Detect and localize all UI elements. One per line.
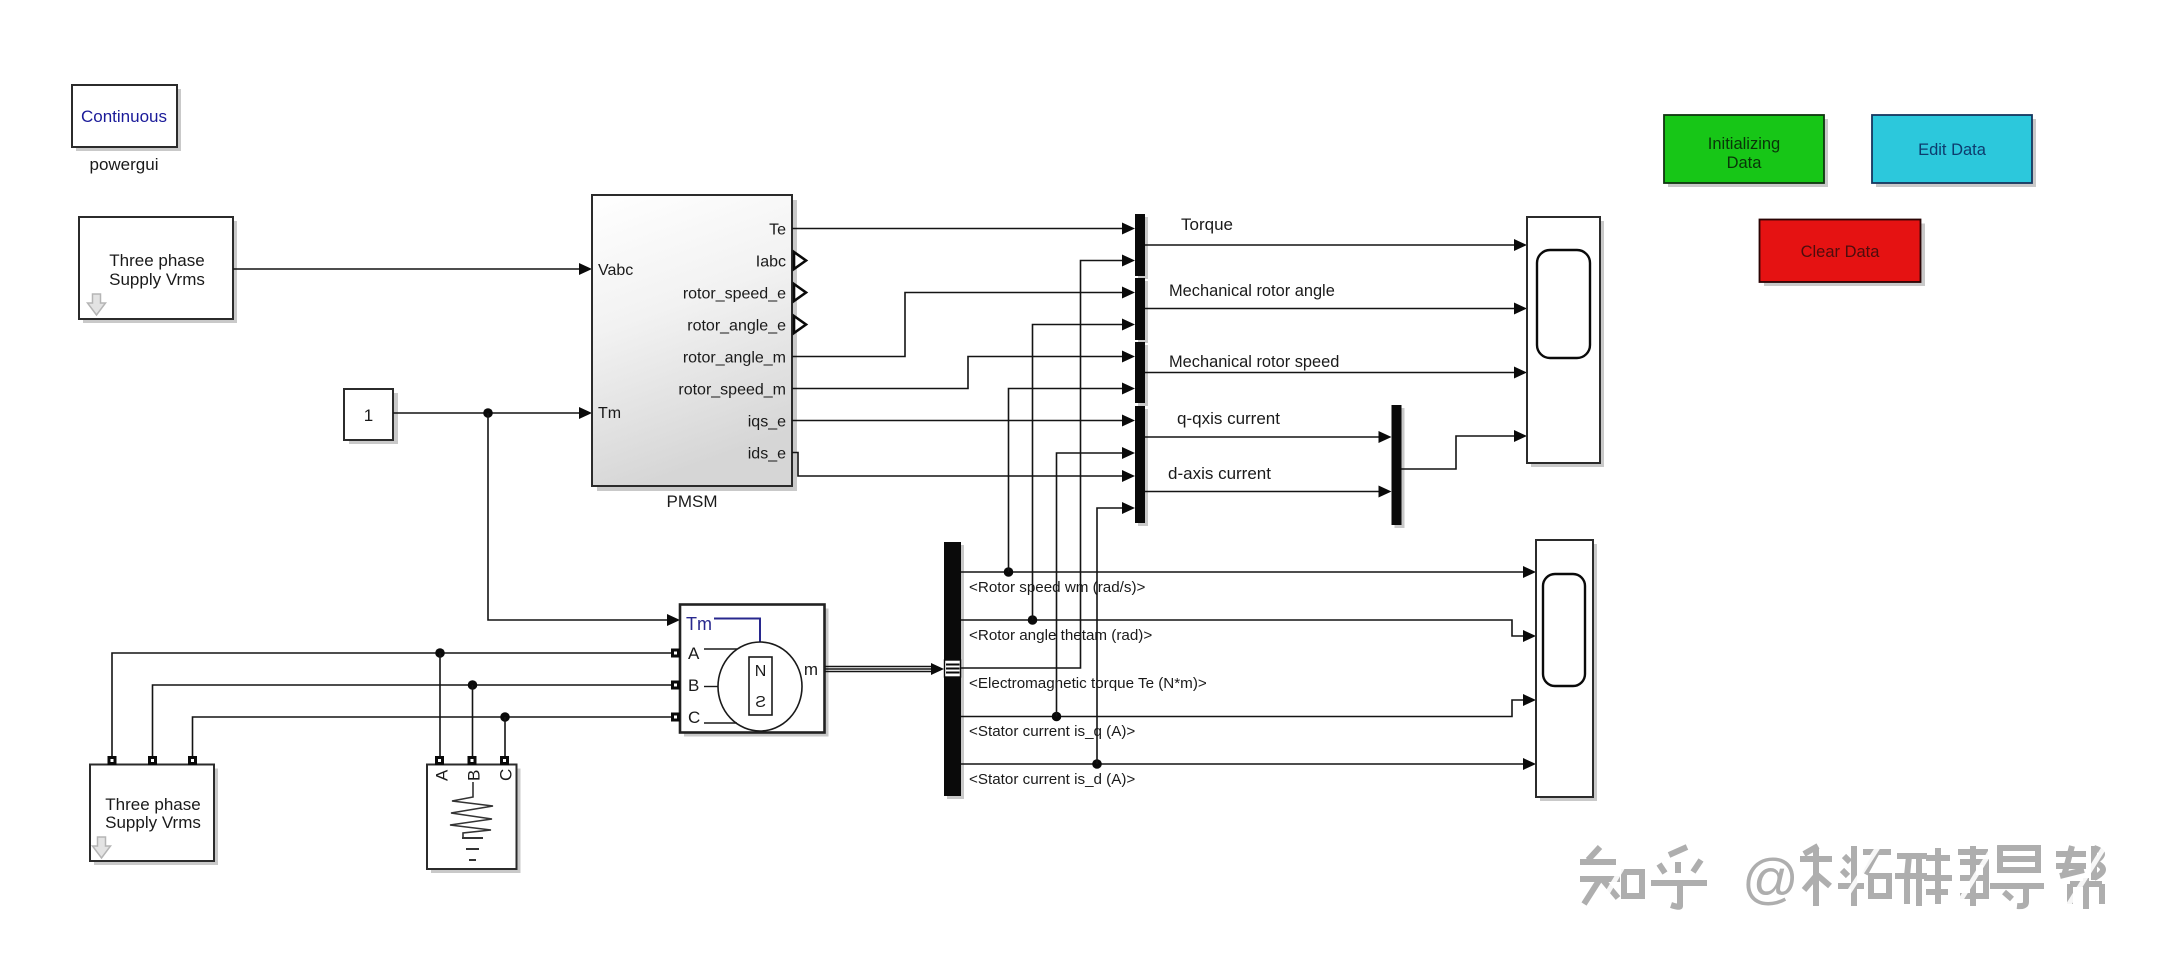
svg-text:S: S: [755, 694, 766, 711]
svg-text:Continuous: Continuous: [81, 107, 167, 126]
node junction is_d: [1092, 759, 1102, 769]
scope Scope1: [1527, 217, 1604, 467]
svg-text:Data: Data: [1727, 154, 1763, 172]
motor port pad C: [671, 713, 680, 722]
wire mux5 out to scope input4: [1402, 436, 1517, 469]
svg-text:Supply Vrms: Supply Vrms: [109, 270, 205, 289]
wire mux3 out to scope: [1145, 372, 1516, 374]
branch port pad B: [468, 756, 477, 765]
wire junction down to motor Tm: [488, 413, 669, 620]
node junction thetam: [1028, 615, 1038, 625]
svg-text:<Rotor speed wm (rad/s)>: <Rotor speed wm (rad/s)>: [969, 579, 1146, 596]
node junction is_q: [1052, 712, 1062, 722]
svg-text:<Stator current is_q (A)>: <Stator current is_q (A)>: [969, 723, 1135, 740]
svg-text:Initializing: Initializing: [1708, 135, 1780, 153]
mux M5: [1395, 408, 1405, 528]
node junction B: [468, 680, 478, 690]
svg-text:rotor_angle_m: rotor_angle_m: [683, 350, 786, 367]
svg-text:Three phase: Three phase: [105, 795, 200, 814]
wire phase C: [193, 717, 672, 756]
svg-text:B: B: [465, 770, 484, 781]
svg-text:m: m: [804, 660, 818, 679]
branch port pad C: [500, 756, 509, 765]
wire ids_e to mux4: [792, 453, 1124, 477]
wire supply to Vabc: [233, 268, 581, 270]
PMSM machine block (motor): [680, 605, 829, 737]
unconnected output port Iabc: [794, 252, 806, 269]
svg-text:Te: Te: [769, 222, 786, 239]
bus selector input icon: [945, 660, 961, 677]
svg-text:Supply Vrms: Supply Vrms: [105, 813, 201, 832]
motor port pad B: [671, 681, 680, 690]
svg-text:Vabc: Vabc: [598, 262, 633, 279]
svg-text:ids_e: ids_e: [748, 446, 786, 463]
wire thetam feeder up to mux2: [1033, 325, 1125, 621]
svg-text:Clear Data: Clear Data: [1801, 243, 1881, 261]
svg-text:N: N: [755, 663, 767, 680]
node junction wm: [1004, 567, 1014, 577]
wire Rotor angle thetam to scope2: [961, 620, 1525, 636]
unconnected output port rotor_speed_e: [794, 284, 806, 301]
three-phase RLC branch block: [427, 765, 521, 874]
supply port pad 3: [188, 756, 197, 765]
node junction C: [500, 712, 510, 722]
constant 1 block: [344, 389, 398, 444]
wire rotor_angle_m to mux2: [792, 293, 1124, 357]
svg-text:Tm: Tm: [598, 405, 621, 422]
svg-text:Three phase: Three phase: [109, 251, 204, 270]
bus wire from motor m: [825, 666, 934, 668]
Three phase Supply Vrms (bottom): [90, 765, 218, 866]
svg-text:C: C: [688, 708, 700, 727]
node junction under constant: [483, 408, 493, 418]
svg-text:<Rotor angle thetam (rad)>: <Rotor angle thetam (rad)>: [969, 627, 1152, 644]
svg-text:Tm: Tm: [686, 614, 712, 634]
wire mux4 out1 to mux5: [1145, 436, 1381, 438]
wire C down to branch: [504, 717, 506, 756]
wire mux2 out to scope: [1145, 308, 1516, 310]
wire is_q feeder up to mux4: [1057, 453, 1125, 717]
wire is_d feeder up to mux4: [1097, 508, 1124, 764]
svg-text:Iabc: Iabc: [756, 254, 786, 271]
svg-text:powergui: powergui: [90, 155, 159, 174]
button Clear Data: [1760, 220, 1926, 287]
svg-text:<Electromagnetic torque Te (N*: <Electromagnetic torque Te (N*m)>: [969, 675, 1207, 692]
wire A down to branch: [439, 653, 441, 756]
svg-text:rotor_speed_e: rotor_speed_e: [683, 286, 786, 303]
wire mux4 out2 to mux5: [1145, 491, 1381, 493]
scope Scope2: [1536, 540, 1597, 801]
wire B down to branch: [472, 685, 474, 756]
wire constant to Tm: [393, 412, 581, 414]
wire phase B: [153, 685, 672, 756]
watermark zhihu: [1580, 846, 2103, 909]
svg-text:Torque: Torque: [1181, 215, 1233, 234]
svg-text:rotor_speed_m: rotor_speed_m: [678, 382, 786, 399]
wire Te to mux1: [792, 228, 1124, 230]
svg-text:PMSM: PMSM: [667, 492, 718, 511]
supply port pad 1: [108, 756, 117, 765]
mux M3 (rotor speed): [1138, 345, 1148, 406]
svg-text:q-qxis current: q-qxis current: [1177, 409, 1280, 428]
wire iqs_e to mux4: [792, 420, 1124, 422]
branch port pad A: [435, 756, 444, 765]
watermark erosion streaks: [1596, 836, 2110, 914]
PMSM subsystem block U1: [592, 195, 797, 491]
button Initializing Data: [1664, 115, 1828, 187]
wire phase A: [112, 653, 671, 756]
wire Electromagnetic torque up to mux1: [961, 261, 1124, 669]
svg-text:<Stator current is_d (A)>: <Stator current is_d (A)>: [969, 771, 1135, 788]
svg-text:iqs_e: iqs_e: [748, 414, 786, 431]
svg-text:d-axis current: d-axis current: [1168, 464, 1271, 483]
wire Stator current is_q to scope2: [961, 700, 1525, 717]
powergui block: [72, 85, 181, 151]
svg-text:A: A: [688, 644, 700, 663]
node junction A: [435, 648, 445, 658]
wire wm feeder up to mux3: [1009, 389, 1125, 573]
mux M2 (rotor angle): [1138, 281, 1148, 343]
wire Rotor speed wm to scope2: [961, 571, 1525, 573]
supply port pad 2: [148, 756, 157, 765]
arrowhead into Vabc: [579, 263, 592, 275]
mux M1 (Torque): [1138, 217, 1148, 279]
arrowhead into Tm: [579, 407, 592, 419]
motor port pad A: [671, 649, 680, 658]
bus selector bar: [947, 545, 964, 799]
svg-text:Edit Data: Edit Data: [1918, 141, 1987, 159]
unconnected output port rotor_angle_e: [794, 316, 806, 333]
wire mux1 out to scope: [1145, 244, 1516, 246]
svg-text:@: @: [1742, 847, 1799, 910]
svg-text:B: B: [688, 676, 699, 695]
button Edit Data: [1872, 115, 2036, 187]
svg-text:Mechanical rotor angle: Mechanical rotor angle: [1169, 282, 1335, 300]
svg-text:Mechanical rotor speed: Mechanical rotor speed: [1169, 353, 1339, 371]
svg-text:1: 1: [364, 406, 373, 425]
svg-text:A: A: [433, 769, 452, 781]
svg-text:rotor_angle_e: rotor_angle_e: [687, 318, 786, 335]
Three phase Supply Vrms (top): [79, 217, 237, 323]
svg-text:C: C: [497, 769, 516, 781]
wire Stator current is_d to scope2: [961, 763, 1525, 765]
mux M4 (currents): [1138, 409, 1148, 526]
wire rotor_speed_m to mux3: [792, 357, 1124, 389]
